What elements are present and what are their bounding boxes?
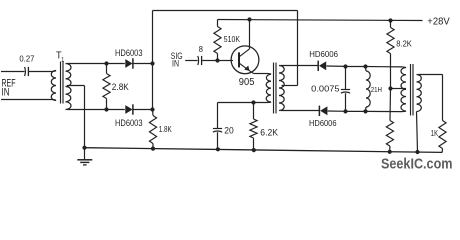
node 8.2K supply junction	[388, 18, 392, 22]
wire center tap stub	[391, 88, 407, 90]
wire 8.2K node to lower resistor	[389, 89, 392, 121]
resistor R7 1K	[439, 75, 446, 153]
node REF IN terminal labels	[2, 78, 16, 99]
diode D3 HD6006 top	[318, 61, 326, 71]
wire T1 secondary top lead	[67, 63, 107, 65]
label HD6003 top	[115, 48, 143, 58]
capacitor C4 0.0075	[341, 67, 350, 112]
label 0.27 value	[19, 53, 34, 63]
svg-text:1.8K: 1.8K	[159, 124, 172, 134]
transformer T3 core	[411, 64, 414, 116]
node 21H top junction	[363, 64, 367, 68]
resistor R1 2.8K	[103, 64, 110, 110]
node rail junction R6	[388, 150, 392, 154]
wire node A to node B vertical	[152, 64, 154, 110]
svg-text:IN: IN	[2, 86, 10, 98]
svg-text:0.0075: 0.0075	[311, 85, 340, 94]
transistor Q1 emitter with arrow	[240, 63, 254, 73]
svg-text:20: 20	[224, 125, 233, 136]
label +28V	[427, 16, 449, 27]
label 905	[239, 77, 255, 88]
node B junction	[150, 107, 154, 111]
wire T2 secondary bottom lead	[281, 110, 320, 112]
transistor Q1 905 body	[231, 46, 259, 74]
label HD6006 top	[309, 49, 338, 59]
wire emitter to T2 primary	[254, 73, 271, 76]
label 8.2K	[396, 39, 412, 49]
label 0.0075 value	[311, 85, 340, 94]
svg-text:0.27: 0.27	[19, 53, 34, 63]
wire bottom lead to diode D2	[107, 109, 125, 111]
wire cap to T1 primary top	[29, 71, 56, 72]
node 21H bottom junction	[363, 109, 367, 113]
node 6.2K top junction	[251, 100, 255, 104]
node rail junction T3 bottom	[415, 150, 419, 154]
svg-text:HD6003: HD6003	[115, 118, 143, 128]
wire 21H bottom to T3 primary bottom	[366, 110, 407, 113]
node rail junction cap 20	[216, 147, 220, 151]
node base junction	[215, 58, 219, 62]
wire T2 primary bottom lead	[218, 101, 272, 104]
resistor R5 8.2K	[387, 21, 394, 89]
label HD6003 bottom	[115, 118, 143, 128]
label 1K	[431, 128, 438, 138]
label 510K	[224, 34, 240, 44]
wire REF IN top lead	[1, 71, 25, 73]
svg-text:HD6003: HD6003	[115, 48, 143, 58]
diode D2 HD6003 bottom	[125, 104, 133, 114]
wire cap node to 21H node	[346, 66, 366, 68]
wire T3 secondary bottom lead	[417, 112, 418, 153]
label 1.8K	[159, 124, 172, 134]
svg-text:510K: 510K	[224, 34, 240, 44]
wire SIG IN lead	[185, 60, 197, 62]
node junction 2.8K top	[104, 61, 108, 65]
wire D4 to cap bottom node	[328, 110, 346, 112]
inductor L1 21H	[366, 67, 371, 112]
wire cap to base node	[202, 60, 217, 62]
resistor R3 510K	[214, 20, 221, 61]
resistor R6 bias	[386, 121, 393, 152]
wire T3 secondary top lead	[418, 74, 443, 76]
diode D1 HD6003 top	[125, 58, 133, 68]
svg-text:IN: IN	[172, 58, 179, 69]
wire cap bottom node to 21H bottom	[346, 110, 366, 112]
svg-text:21H: 21H	[371, 85, 382, 94]
capacitor C2 8	[198, 56, 202, 65]
label 2.8K	[112, 82, 129, 92]
diode D4 HD6006 bottom	[319, 106, 327, 116]
wire T2 secondary top lead	[281, 65, 318, 67]
label 8 value	[199, 45, 204, 54]
transformer T3 secondary winding	[417, 75, 422, 112]
transistor Q1 collector	[240, 20, 250, 57]
wire D3 to cap node	[326, 65, 345, 67]
wire base node to transistor	[218, 60, 234, 62]
transformer T3 primary winding	[401, 68, 406, 112]
wire REF IN bottom lead	[1, 100, 56, 101]
transformer T1 secondary winding	[66, 64, 72, 110]
ground	[77, 148, 92, 165]
wire cap 20 to rail	[217, 132, 219, 149]
transformer T2 secondary winding	[279, 66, 284, 111]
wire T1 center tap	[67, 86, 85, 148]
svg-text:8: 8	[199, 45, 204, 54]
transformer T1 primary winding	[51, 71, 56, 101]
label 21H	[371, 85, 382, 94]
node collector supply junction	[247, 17, 251, 21]
wire top feedback rail	[153, 11, 298, 86]
svg-text:HD6006: HD6006	[309, 118, 337, 128]
wire 21H node to T3 primary top	[366, 67, 407, 68]
wire down to cap 20	[217, 103, 219, 129]
label HD6006 bottom	[309, 118, 337, 128]
label 6.2K	[260, 127, 278, 138]
wire T1 secondary bottom lead	[67, 109, 107, 111]
label T1	[56, 51, 65, 64]
node A junction	[150, 61, 154, 65]
resistor R4 6.2K	[250, 103, 257, 151]
svg-text:HD6006: HD6006	[309, 49, 338, 59]
svg-text:1K: 1K	[431, 128, 438, 138]
wire D2 to node B	[133, 109, 153, 111]
svg-text:2.8K: 2.8K	[112, 82, 129, 92]
wire rail to T2 center tap	[282, 85, 298, 87]
wire D1 to node A	[133, 63, 153, 65]
wire top lead to diode D1	[107, 63, 125, 65]
node rail junction 1.8K	[151, 147, 155, 151]
svg-text:6.2K: 6.2K	[260, 127, 278, 138]
transformer T1 core	[61, 62, 64, 104]
node cap 0.0075 top junction	[343, 64, 347, 68]
node ground junction	[82, 146, 86, 150]
svg-text:8.2K: 8.2K	[396, 39, 412, 49]
node T3 center tap junction	[388, 86, 392, 90]
transformer T2 core	[274, 63, 277, 114]
wire bottom ground rail	[85, 148, 443, 153]
capacitor C3 20	[213, 129, 222, 133]
node junction 2.8K bottom	[104, 107, 108, 111]
resistor R2 1.8K	[149, 110, 156, 149]
node cap 0.0075 bottom junction	[343, 109, 347, 113]
capacitor 0.27	[25, 67, 29, 76]
label 20 value	[224, 125, 233, 136]
node SIG IN terminal labels	[171, 50, 183, 68]
transformer T2 primary winding	[266, 74, 271, 102]
node rail junction 6.2K	[252, 148, 256, 152]
svg-text:905: 905	[239, 77, 255, 88]
svg-text:+28V: +28V	[427, 16, 449, 27]
wire supply line +28V	[218, 20, 423, 21]
svg-text:SeekIC.com: SeekIC.com	[381, 157, 453, 173]
watermark SeekIC.com	[381, 157, 453, 173]
